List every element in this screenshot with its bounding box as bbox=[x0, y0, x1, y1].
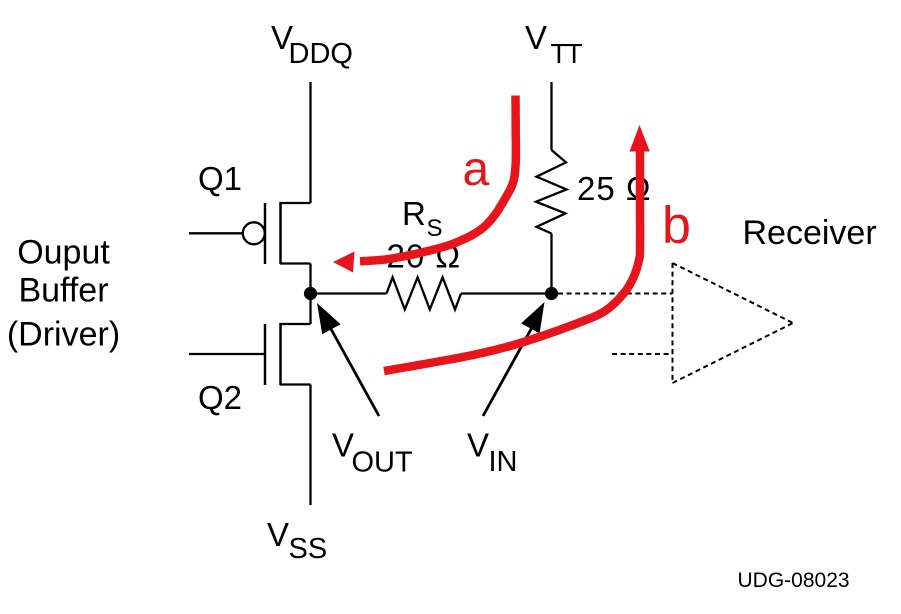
wire RS to node B bbox=[461, 292, 552, 294]
Q2 source horizontal bbox=[280, 383, 311, 385]
red current path a bbox=[333, 96, 516, 273]
node VDDQ label bbox=[271, 19, 353, 70]
svg-text:V: V bbox=[525, 19, 547, 56]
svg-text:UDG-08023: UDG-08023 bbox=[738, 569, 850, 592]
Q1 source horizontal bbox=[280, 262, 311, 264]
dashed wire node B to receiver bbox=[558, 293, 673, 295]
resistor 25 ohm bbox=[536, 150, 567, 234]
transistor Q2 bbox=[189, 323, 311, 385]
pointer arrow to VOUT node bbox=[317, 303, 379, 416]
red arrowhead b bbox=[630, 125, 650, 152]
transistor Q1 bbox=[189, 202, 311, 264]
node VSS label bbox=[267, 516, 327, 565]
Q2 drain horizontal bbox=[280, 323, 311, 325]
node VTT label bbox=[525, 19, 583, 69]
Q1 gate bubble bbox=[243, 222, 265, 244]
pointer arrow to VIN node bbox=[483, 302, 545, 416]
svg-text:b: b bbox=[662, 197, 691, 255]
svg-text:R: R bbox=[402, 195, 426, 232]
wire VDDQ lead bbox=[309, 82, 311, 203]
Q1 channel bar bbox=[279, 202, 282, 264]
svg-text:Receiver: Receiver bbox=[743, 214, 877, 252]
label RS bbox=[402, 195, 443, 242]
wire VSS lead bbox=[309, 385, 311, 506]
wire 25 ohm to node B bbox=[550, 234, 552, 294]
dashed stub input 2 bbox=[612, 353, 673, 355]
red current path b bbox=[384, 125, 650, 371]
label VOUT bbox=[332, 427, 413, 479]
node B (VIN junction) bbox=[545, 287, 558, 300]
resistor RS 20 ohm bbox=[387, 277, 462, 309]
svg-text:DDQ: DDQ bbox=[289, 38, 353, 70]
svg-text:OUT: OUT bbox=[352, 447, 414, 479]
svg-text:SS: SS bbox=[289, 533, 328, 565]
Q1 gate bar bbox=[264, 203, 267, 264]
Q1 drain horizontal bbox=[280, 202, 311, 204]
wire node A to RS bbox=[311, 292, 387, 294]
svg-text:a: a bbox=[463, 143, 490, 196]
node A (VOUT junction) bbox=[304, 287, 317, 300]
receiver triangle (dashed) bbox=[673, 263, 794, 383]
wire Q1 source to node A to Q2 drain bbox=[309, 264, 311, 325]
wire VTT lead bbox=[550, 82, 552, 150]
svg-text:IN: IN bbox=[489, 446, 518, 478]
svg-text:Q1: Q1 bbox=[198, 160, 242, 197]
Q2 channel bar bbox=[279, 323, 282, 385]
svg-text:Ouput: Ouput bbox=[17, 234, 110, 272]
Q2 gate bar bbox=[264, 324, 267, 385]
svg-text:TT: TT bbox=[551, 38, 583, 69]
label Ouput Buffer (Driver) bbox=[7, 234, 120, 354]
Q1 gate lead bbox=[189, 232, 243, 234]
red arrowhead a bbox=[333, 252, 355, 273]
svg-text:V: V bbox=[467, 427, 489, 464]
svg-text:V: V bbox=[267, 516, 289, 553]
svg-text:Buffer: Buffer bbox=[18, 272, 108, 310]
svg-text:Q2: Q2 bbox=[198, 379, 242, 416]
Q2 gate lead bbox=[189, 353, 265, 355]
label VIN bbox=[467, 427, 518, 479]
svg-text:(Driver): (Driver) bbox=[7, 316, 120, 354]
